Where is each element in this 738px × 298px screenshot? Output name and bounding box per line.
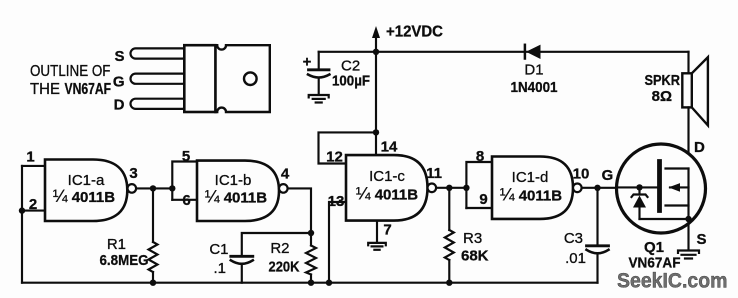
mosfet body stub with arrow [670, 186, 689, 188]
svg-text:IC1-c: IC1-c [369, 168, 405, 185]
svg-text:¼ 4011B: ¼ 4011B [500, 185, 562, 205]
wire pin1 [22, 165, 46, 167]
resistor R2 [269, 233, 317, 283]
package pin G [131, 74, 188, 84]
+12VDC supply arrow [372, 24, 443, 52]
svg-text:Q1: Q1 [644, 239, 664, 256]
svg-text:THE: THE [30, 81, 60, 98]
svg-text:11: 11 [426, 165, 442, 182]
wire pin 7 [376, 221, 378, 242]
wire to C1 [242, 233, 311, 255]
wire main vertical to pin 14 [375, 52, 377, 155]
svg-text:13: 13 [328, 193, 345, 210]
svg-text:+12VDC: +12VDC [386, 24, 443, 41]
svg-text:9: 9 [479, 191, 487, 208]
node R1 branch [150, 185, 156, 191]
svg-text:C1: C1 [209, 241, 228, 258]
ground below C2 [309, 95, 329, 103]
node pin12/14 junction [373, 129, 379, 135]
node pin2 junction [19, 207, 25, 213]
node pin13 bottom [326, 280, 332, 286]
svg-text:D: D [694, 139, 705, 156]
package tab [215, 45, 269, 112]
package pin D [131, 99, 188, 109]
zener protection diode [632, 187, 689, 219]
svg-text:C3: C3 [564, 230, 583, 247]
node R1 bottom [150, 280, 156, 286]
svg-text:1: 1 [26, 149, 34, 166]
diode D1 [511, 45, 558, 96]
package mounting hole [244, 72, 257, 85]
svg-text:+: + [303, 54, 312, 71]
svg-text:¼ 4011B: ¼ 4011B [53, 186, 115, 206]
svg-text:VN67AF: VN67AF [65, 81, 112, 98]
mosfet source stub [666, 204, 689, 206]
svg-text:7: 7 [383, 222, 391, 239]
gate-b input tie wires [172, 162, 197, 200]
svg-text:SeekIC.com: SeekIC.com [617, 269, 728, 293]
svg-text:1N4001: 1N4001 [511, 79, 558, 96]
node zener junction [636, 184, 642, 190]
op-amp... NAND gate IC1-a [45, 160, 136, 222]
svg-text:IC1-b: IC1-b [215, 172, 252, 189]
resistor R1 [100, 188, 158, 282]
wire gate-d output to mosfet gate [582, 187, 658, 189]
svg-text:G: G [113, 74, 125, 91]
wire top-right corner down to speaker [687, 52, 689, 74]
svg-text:G: G [602, 167, 614, 184]
node R3 branch [446, 185, 452, 191]
ground at pin 7 [368, 243, 386, 250]
node C3 branch [594, 185, 600, 191]
wire left feedback riser [21, 166, 23, 283]
svg-text:S: S [697, 231, 707, 248]
node source junction [685, 216, 691, 222]
svg-text:.01: .01 [565, 250, 586, 267]
wire gate-a output [136, 187, 172, 189]
svg-text:5: 5 [182, 148, 190, 165]
wire source to ground [687, 219, 689, 250]
wire speaker to drain [687, 107, 689, 168]
wire bottom rail [22, 282, 598, 284]
NAND gate IC1-b [197, 161, 288, 221]
NAND gate IC1-d [492, 157, 582, 219]
svg-text:OUTLINE OF: OUTLINE OF [30, 63, 111, 80]
package body [184, 45, 215, 112]
svg-text:S: S [114, 48, 124, 65]
top rail wire [319, 51, 689, 53]
wire pin13 branch [329, 202, 346, 283]
capacitor C1 [209, 241, 252, 283]
svg-text:D: D [114, 97, 125, 114]
svg-text:R1: R1 [107, 236, 126, 253]
svg-text:4: 4 [281, 166, 290, 183]
svg-text:D1: D1 [524, 62, 543, 79]
svg-text:100µF: 100µF [332, 73, 370, 90]
svg-text:10: 10 [573, 166, 590, 183]
svg-text:SPKR: SPKR [645, 72, 681, 89]
wire gate-b output [288, 188, 311, 233]
speaker SPKR [645, 57, 708, 125]
svg-text:IC1-a: IC1-a [68, 172, 105, 189]
wire gate entry inside circle [617, 186, 658, 188]
svg-text:3: 3 [129, 165, 137, 182]
wire gate-c output [436, 187, 466, 189]
node gate-d input tie [463, 185, 469, 191]
node R3 bottom [446, 280, 452, 286]
capacitor C3 [564, 188, 609, 283]
svg-text:IC1-d: IC1-d [512, 169, 549, 186]
svg-text:6: 6 [182, 192, 190, 209]
svg-text:8Ω: 8Ω [652, 88, 672, 105]
svg-text:6.8MEG: 6.8MEG [100, 252, 149, 269]
wire pin12 loop [319, 132, 377, 163]
mosfet gate bar [657, 162, 662, 211]
svg-text:R3: R3 [463, 230, 482, 247]
mosfet right vertical [687, 169, 689, 220]
resistor R3 [445, 188, 489, 283]
mosfet drain stub [666, 167, 689, 169]
svg-text:¼ 4011B: ¼ 4011B [356, 184, 418, 204]
svg-text:8: 8 [476, 148, 484, 165]
wire pin2 [22, 210, 46, 212]
node C1/R2 junction [308, 230, 314, 236]
transistor package outline text [30, 63, 111, 98]
node gate-b input tie [169, 185, 175, 191]
transistor Q1 circle [617, 144, 706, 233]
svg-text:¼ 4011B: ¼ 4011B [205, 187, 267, 207]
svg-text:2: 2 [29, 196, 37, 213]
package pin S [131, 48, 188, 58]
svg-text:14: 14 [381, 139, 398, 156]
node R2 bottom [308, 280, 314, 286]
ground at source [678, 251, 699, 259]
svg-text:.1: .1 [213, 260, 226, 277]
capacitor C2 [303, 52, 370, 95]
svg-text:220K: 220K [269, 259, 300, 276]
node +12V junction [373, 49, 379, 55]
NAND gate IC1-c [346, 155, 436, 221]
gate-d input tie wires [466, 162, 492, 208]
svg-text:68K: 68K [461, 248, 489, 265]
svg-text:12: 12 [326, 149, 343, 166]
svg-text:R2: R2 [270, 240, 289, 257]
